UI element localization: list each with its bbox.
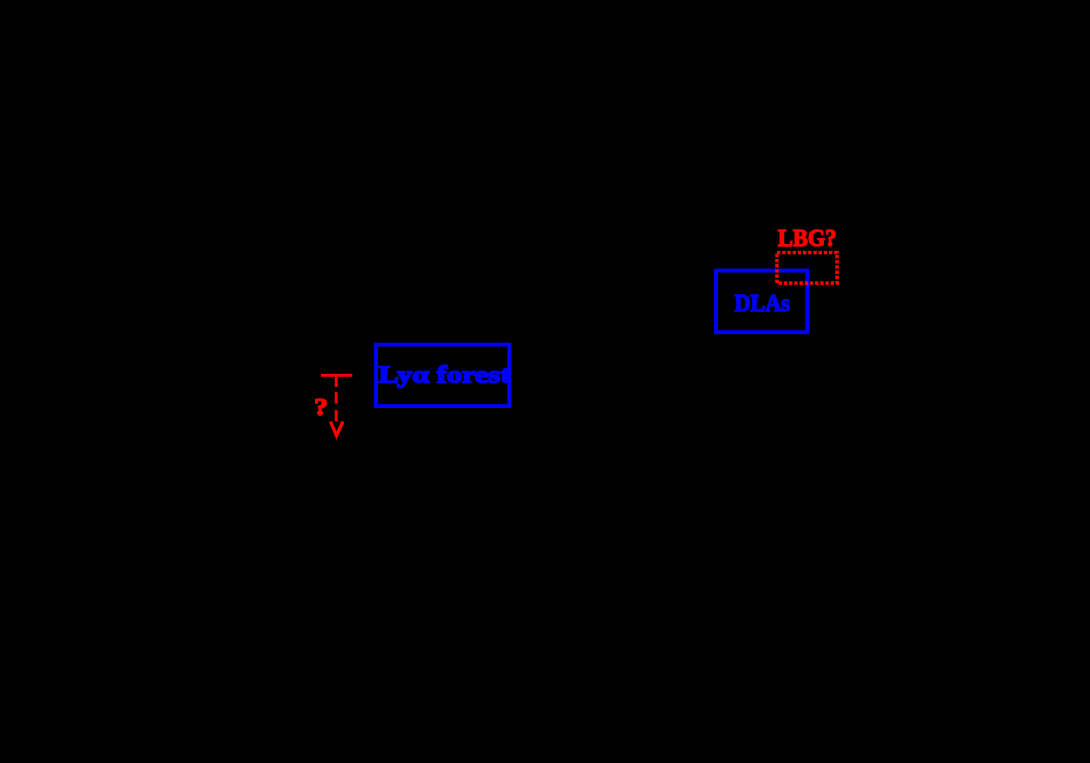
upper-limit bar (red horizontal tick): [321, 374, 352, 377]
dashed arrow shaft segment 3: [335, 410, 338, 421]
dashed arrow shaft segment 2: [335, 392, 338, 403]
svg-text:Lyα forest: Lyα forest: [379, 361, 511, 388]
dashed arrow shaft segment 1: [335, 377, 338, 387]
box LBG (red dotted rectangle): [777, 253, 837, 284]
box DLAs (blue rectangle): [716, 271, 807, 333]
box Lya forest (blue rectangle): [376, 345, 509, 407]
svg-text:DLAs: DLAs: [735, 290, 790, 317]
arrowhead (red V chevron): [331, 422, 343, 436]
svg-text:?: ?: [314, 394, 328, 421]
svg-text:LBG?: LBG?: [778, 225, 837, 252]
